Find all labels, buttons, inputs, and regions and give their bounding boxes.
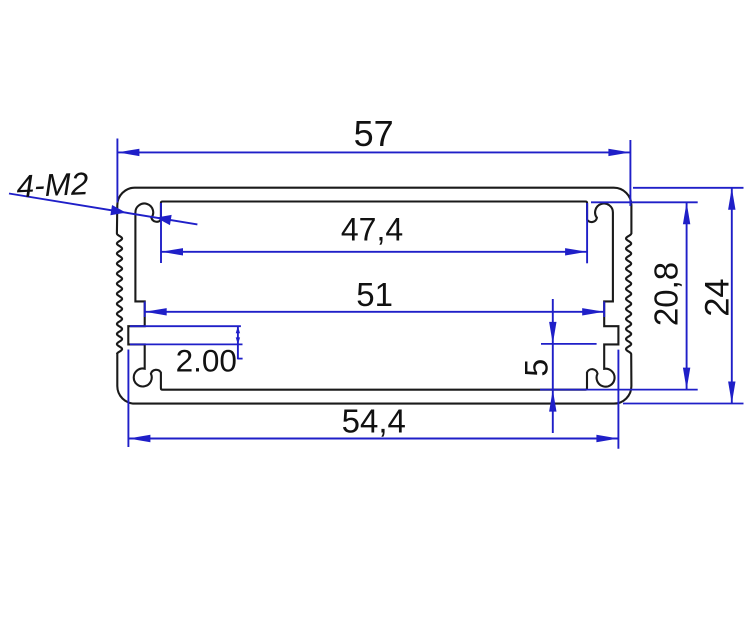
svg-text:47,4: 47,4 xyxy=(341,211,403,247)
svg-text:4-M2: 4-M2 xyxy=(16,165,90,204)
svg-text:20,8: 20,8 xyxy=(648,262,685,326)
svg-text:2.00: 2.00 xyxy=(176,342,237,378)
svg-text:51: 51 xyxy=(356,276,393,313)
svg-text:24: 24 xyxy=(699,278,737,316)
svg-text:57: 57 xyxy=(354,113,394,154)
svg-text:54,4: 54,4 xyxy=(342,402,406,439)
svg-text:5: 5 xyxy=(518,359,554,377)
